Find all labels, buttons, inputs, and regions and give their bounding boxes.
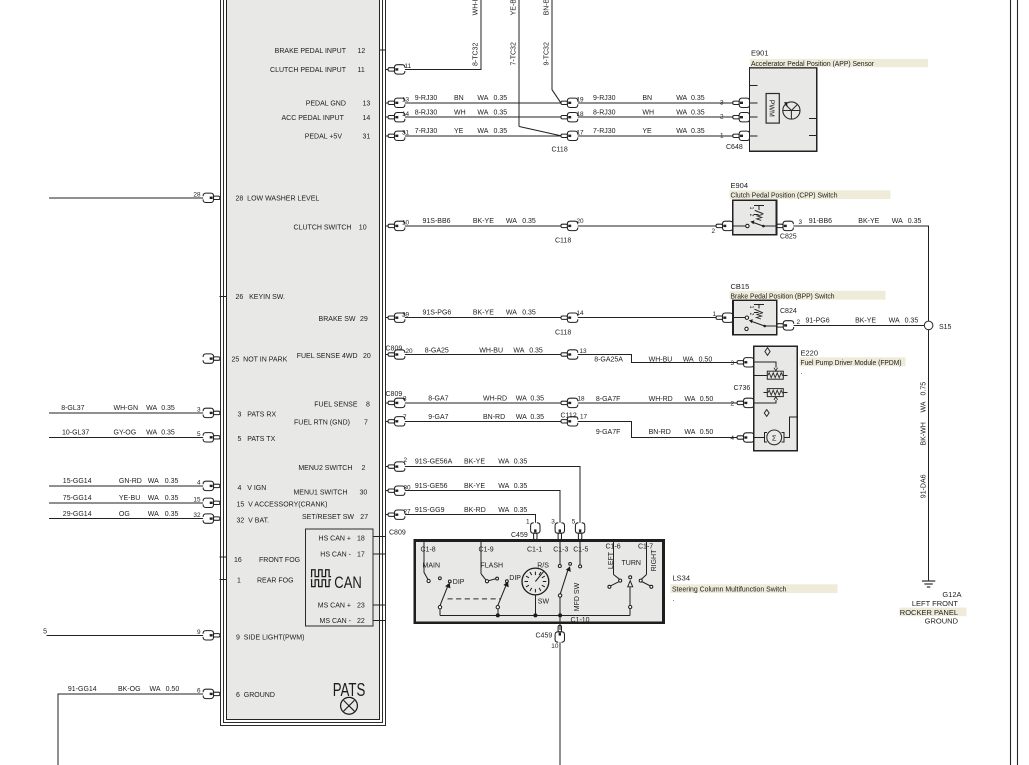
E220 pin4 internal wire <box>754 436 765 438</box>
C1-9 stub and FLASH contact <box>480 542 482 575</box>
svg-text:0.35: 0.35 <box>494 95 508 102</box>
svg-text:14: 14 <box>363 115 371 122</box>
connector pin 27 SET/RESET <box>388 510 405 519</box>
CAN stub 22 <box>373 620 386 622</box>
CB15 pedal link squiggle <box>756 313 762 319</box>
connector pin 3 PATS RX <box>203 408 220 417</box>
highlight E220 desc <box>800 357 906 366</box>
CB15 output wire <box>765 325 777 327</box>
svg-text:91-DA6: 91-DA6 <box>920 474 927 498</box>
CB15 open contact circle <box>745 327 748 330</box>
svg-text:30: 30 <box>360 490 368 497</box>
E904 lever with arrow <box>753 222 764 226</box>
svg-text:CLUTCH SWITCH: CLUTCH SWITCH <box>294 224 352 231</box>
svg-text:91S-GE56: 91S-GE56 <box>415 483 448 490</box>
E220 resistor1 top arrow <box>774 368 778 371</box>
ground G12A symbol <box>922 581 935 587</box>
svg-text:C809: C809 <box>389 530 406 537</box>
svg-text:.: . <box>801 367 803 376</box>
svg-text:75-GG14: 75-GG14 <box>63 495 92 502</box>
svg-text:C1-6: C1-6 <box>606 544 621 551</box>
CB15 lever pivot dot <box>763 325 766 328</box>
connector pin 29 BRAKE SW <box>388 313 405 322</box>
svg-text:8-GA7: 8-GA7 <box>428 396 448 403</box>
FLASH lever <box>498 586 506 606</box>
E904 output wire <box>763 225 776 227</box>
wire 7-RJ30 PEDAL +5V row <box>386 135 737 137</box>
svg-text:WA: WA <box>498 483 509 490</box>
ECU module (instrument/central module) outer border <box>221 0 386 726</box>
svg-text:WH: WH <box>454 109 466 116</box>
svg-text:27: 27 <box>360 514 368 521</box>
highlight ROCKER PANEL <box>900 608 967 617</box>
svg-text:MENU2 SWITCH: MENU2 SWITCH <box>298 465 352 472</box>
BPP switch CB15 body <box>733 300 777 335</box>
svg-text:9: 9 <box>197 629 201 636</box>
pin 12 stub BRAKE PEDAL INPUT <box>380 49 386 51</box>
svg-text:0.50: 0.50 <box>700 429 714 436</box>
svg-text:0.50: 0.50 <box>166 686 180 693</box>
svg-text:WA: WA <box>148 511 159 518</box>
svg-text:PEDAL GND: PEDAL GND <box>306 100 346 107</box>
svg-text:0.35: 0.35 <box>165 495 179 502</box>
ECU module inner body <box>227 0 380 720</box>
E904 contact circle <box>746 224 749 227</box>
svg-text:91-PG6: 91-PG6 <box>806 317 830 324</box>
svg-text:BK-YE: BK-YE <box>464 459 485 466</box>
wire 10-GL37 PATS TX <box>49 436 220 438</box>
E904 lever pivot dot <box>762 225 765 228</box>
CAN stub 18 <box>373 536 386 538</box>
svg-text:WH: WH <box>642 109 654 116</box>
svg-text:BK-YE: BK-YE <box>473 218 494 225</box>
svg-text:16: 16 <box>234 557 242 564</box>
connector E220 pin 2 <box>737 398 754 407</box>
connector pin 15 V ACCESSORY <box>203 498 220 507</box>
svg-text:WA: WA <box>506 218 517 225</box>
svg-text:20: 20 <box>577 218 585 225</box>
svg-text:8-RJ30: 8-RJ30 <box>415 109 438 116</box>
connector pin 2 MENU2 <box>388 462 405 471</box>
svg-text:91S-GE56A: 91S-GE56A <box>415 459 453 466</box>
svg-text:DIP: DIP <box>453 579 465 586</box>
svg-text:WA: WA <box>477 128 488 135</box>
svg-text:WA: WA <box>516 414 527 421</box>
svg-text:9-RJ30: 9-RJ30 <box>415 95 438 102</box>
connector pin 9 SIDE LIGHT <box>203 631 220 640</box>
svg-text:26 KEYIN SW.: 26 KEYIN SW. <box>236 294 285 301</box>
svg-text:BN: BN <box>642 95 652 102</box>
svg-text:7-TC32: 7-TC32 <box>511 42 518 65</box>
svg-text:FUEL SENSE: FUEL SENSE <box>314 402 358 409</box>
E904 input wire to contact <box>733 225 746 227</box>
wire 7-TC32 riser to C118-17 <box>518 0 520 127</box>
CB15 lever <box>752 322 764 326</box>
wire 9-TC32 riser to C118-19 <box>551 0 553 90</box>
svg-text:WA: WA <box>146 429 157 436</box>
wire 8-GA7 FUEL SENSE row <box>386 402 741 404</box>
svg-text:0.35: 0.35 <box>691 128 705 135</box>
svg-text:BN-RD: BN-RD <box>483 414 505 421</box>
svg-text:2: 2 <box>730 401 734 408</box>
svg-text:WH-RD: WH-RD <box>483 396 507 403</box>
connector C459-5 <box>575 523 584 540</box>
svg-text:8: 8 <box>366 402 370 409</box>
svg-text:8-GA25A: 8-GA25A <box>594 356 623 363</box>
C1-8 stub and MAIN contact <box>423 542 425 573</box>
svg-text:YE-BU: YE-BU <box>511 0 518 15</box>
E904 pedal bracket <box>754 206 764 215</box>
wire 91S-PG6 BRAKE SW row <box>386 317 720 319</box>
svg-text:28: 28 <box>193 191 201 198</box>
wire 91-GG14 GROUND with corner down <box>58 694 220 765</box>
R/S pointer <box>535 571 544 581</box>
svg-text:FRONT FOG: FRONT FOG <box>259 557 300 564</box>
C1-5 stub and contact <box>579 542 581 565</box>
svg-text:1: 1 <box>720 132 724 139</box>
svg-text:91S-GG9: 91S-GG9 <box>415 507 445 514</box>
svg-text:31: 31 <box>402 130 410 137</box>
connector pin 30 MENU1 <box>388 486 405 495</box>
C1-6 stub and LEFT contact <box>613 542 615 575</box>
svg-text:0.35: 0.35 <box>908 218 922 225</box>
svg-text:0.35: 0.35 <box>691 95 705 102</box>
svg-text:91-GG14: 91-GG14 <box>68 686 97 693</box>
connector C648-2 <box>733 113 750 122</box>
svg-text:TURN: TURN <box>622 560 641 567</box>
svg-text:27: 27 <box>404 509 412 516</box>
svg-text:C1-8: C1-8 <box>421 547 436 554</box>
svg-text:32: 32 <box>193 512 201 519</box>
svg-text:E904: E904 <box>731 181 749 190</box>
svg-text:WA: WA <box>920 401 927 412</box>
svg-text:.: . <box>673 594 675 603</box>
svg-text:RIGHT: RIGHT <box>651 549 658 572</box>
FLASH DIP contact <box>506 580 509 583</box>
svg-text:30: 30 <box>404 485 412 492</box>
svg-text:9-RJ30: 9-RJ30 <box>593 95 616 102</box>
svg-text:32 V BAT.: 32 V BAT. <box>237 518 270 525</box>
svg-text:Accelerator Pedal Position (AP: Accelerator Pedal Position (APP) Sensor <box>751 61 875 68</box>
connector C118-18 <box>561 113 578 122</box>
wire 91S-BB6 CLUTCH SWITCH row <box>386 225 720 227</box>
connector pin 11 (CLUTCH PEDAL INPUT) <box>388 65 405 74</box>
highlight E901 desc <box>750 59 928 67</box>
svg-text:Clutch Pedal Position (CPP) Sw: Clutch Pedal Position (CPP) Switch <box>731 193 838 200</box>
svg-text:BK-YE: BK-YE <box>858 218 879 225</box>
svg-text:8: 8 <box>403 395 407 402</box>
wire 28 LOW WASHER LEVEL <box>49 197 220 199</box>
svg-text:WA: WA <box>684 396 695 403</box>
E220 top diamond <box>765 348 770 356</box>
svg-text:10-GL37: 10-GL37 <box>62 429 89 436</box>
C1-3 stub and contact <box>559 542 561 565</box>
MAIN middle contact <box>439 577 442 580</box>
CB15 pedal bracket <box>754 305 764 313</box>
svg-text:9-GA7: 9-GA7 <box>428 414 448 421</box>
svg-text:MFD SW: MFD SW <box>574 582 581 611</box>
svg-text:C118: C118 <box>555 330 571 337</box>
svg-text:WA: WA <box>477 109 488 116</box>
svg-text:7-RJ30: 7-RJ30 <box>593 128 616 135</box>
svg-text:9-GA7F: 9-GA7F <box>596 429 621 436</box>
svg-text:CLUTCH PEDAL INPUT: CLUTCH PEDAL INPUT <box>270 67 347 74</box>
svg-text:BK-YE: BK-YE <box>464 483 485 490</box>
svg-text:29-GG14: 29-GG14 <box>63 511 92 518</box>
svg-text:WA: WA <box>148 478 159 485</box>
svg-text:4: 4 <box>730 435 734 442</box>
svg-text:MAIN: MAIN <box>423 562 441 569</box>
svg-text:YE-BU: YE-BU <box>119 495 140 502</box>
svg-text:22: 22 <box>357 618 365 625</box>
svg-text:Σ: Σ <box>772 433 777 442</box>
svg-text:3: 3 <box>551 518 555 525</box>
svg-text:G12A: G12A <box>942 590 961 599</box>
svg-text:8-RJ30: 8-RJ30 <box>593 109 616 116</box>
E901 position sensor circle <box>783 102 800 119</box>
svg-text:C118: C118 <box>552 146 568 153</box>
R/S to bus junction <box>534 595 536 616</box>
svg-text:SW: SW <box>538 599 550 606</box>
svg-text:LS34: LS34 <box>673 574 691 583</box>
svg-text:0.35: 0.35 <box>514 507 528 514</box>
svg-text:15: 15 <box>193 496 201 503</box>
svg-text:HS CAN -: HS CAN - <box>320 552 351 559</box>
E901 internal stub y85.6 <box>750 85 758 87</box>
wire 9-GA7 FUEL RTN row <box>386 420 563 422</box>
svg-text:WH-BU: WH-BU <box>472 0 479 15</box>
pin 26 KEYIN stub <box>220 296 228 298</box>
svg-text:8-GL37: 8-GL37 <box>61 405 84 412</box>
svg-text:3 PATS RX: 3 PATS RX <box>238 411 277 418</box>
svg-text:GN-RD: GN-RD <box>119 478 142 485</box>
svg-text:13: 13 <box>402 97 410 104</box>
svg-text:23: 23 <box>357 602 365 609</box>
CAN square wave symbol <box>311 570 331 577</box>
svg-text:FUEL RTN (GND): FUEL RTN (GND) <box>294 420 350 427</box>
E220 resistor2 side leads <box>763 392 787 394</box>
connector C459-1 <box>531 523 540 540</box>
connector E904 pin 2 input <box>716 221 733 230</box>
svg-text:8-GA25: 8-GA25 <box>425 348 449 355</box>
svg-text:C1-9: C1-9 <box>479 547 494 554</box>
C1-7 stub and RIGHT contact <box>646 542 648 575</box>
R/S rotary ticks <box>525 572 547 593</box>
svg-text:WA: WA <box>676 95 687 102</box>
svg-text:14: 14 <box>402 111 410 118</box>
TURN lever arrow <box>628 581 633 587</box>
svg-text:C1-3: C1-3 <box>553 547 568 554</box>
svg-text:FLASH: FLASH <box>481 562 504 569</box>
svg-text:0.35: 0.35 <box>494 128 508 135</box>
pin 1 REAR FOG stub <box>220 579 228 581</box>
svg-text:WH-BU: WH-BU <box>649 356 673 363</box>
svg-text:8-GA7F: 8-GA7F <box>596 396 621 403</box>
exit wire through C1-10 <box>559 615 561 630</box>
connector pin 4 V IGN <box>203 481 220 490</box>
connector E220 pin 3 <box>737 358 754 367</box>
connector 18 (8-GA7F) <box>561 398 578 407</box>
svg-text:10: 10 <box>402 220 410 227</box>
connector 13 (8-GA25A) <box>561 350 578 359</box>
svg-text:7: 7 <box>403 414 407 421</box>
svg-text:18: 18 <box>357 535 365 542</box>
mechanical link dashed <box>448 598 501 600</box>
svg-text:5: 5 <box>572 518 576 525</box>
MAIN lever <box>440 587 448 606</box>
svg-text:11: 11 <box>358 67 365 74</box>
svg-text:1: 1 <box>526 518 530 525</box>
svg-text:28 LOW WASHER LEVEL: 28 LOW WASHER LEVEL <box>236 195 320 202</box>
E220 pin2 internal wire <box>754 400 776 403</box>
svg-text:WH-BU: WH-BU <box>479 348 503 355</box>
svg-text:BK-YE: BK-YE <box>473 310 494 317</box>
svg-text:CB15: CB15 <box>731 282 750 291</box>
svg-text:GY-OG: GY-OG <box>114 429 137 436</box>
svg-text:3: 3 <box>197 406 201 413</box>
svg-text:WA: WA <box>498 459 509 466</box>
svg-text:0.35: 0.35 <box>514 483 528 490</box>
MAIN lever to bus <box>439 609 441 616</box>
svg-text:14: 14 <box>577 310 585 317</box>
svg-text:WA: WA <box>676 109 687 116</box>
svg-text:C118: C118 <box>555 238 571 245</box>
wire SIDE LIGHT(PWM) <box>47 634 220 636</box>
svg-text:WA: WA <box>684 429 695 436</box>
svg-text:CAN: CAN <box>334 574 362 592</box>
svg-text:YE: YE <box>642 128 652 135</box>
svg-text:GROUND: GROUND <box>925 616 959 625</box>
svg-text:BK-WH: BK-WH <box>920 422 927 445</box>
wire 91S-GE56 MENU1 SWITCH to C459-3 <box>386 491 560 565</box>
svg-text:0.35: 0.35 <box>165 511 179 518</box>
connector pin 13 (PEDAL GND) <box>388 98 405 107</box>
connector pin 7 FUEL RTN <box>388 417 405 426</box>
wire 9-RJ30 PEDAL GND row <box>386 102 737 104</box>
svg-text:E901: E901 <box>751 49 769 58</box>
wire pin11 CLUTCH PEDAL INPUT to 8-TC32 riser <box>386 0 482 69</box>
connector pin 10 CLUTCH SWITCH <box>388 221 405 230</box>
svg-text:0.35: 0.35 <box>530 414 544 421</box>
svg-text:1: 1 <box>748 306 754 309</box>
svg-text:WA: WA <box>477 95 488 102</box>
connector C648-3 <box>733 98 750 107</box>
svg-text:WA: WA <box>150 686 161 693</box>
FLASH middle contact <box>496 577 499 580</box>
svg-text:2: 2 <box>711 228 715 235</box>
connector pin 32 V BAT <box>203 514 220 523</box>
E220 motor right bracket <box>781 433 784 443</box>
svg-text:91-BB6: 91-BB6 <box>809 218 832 225</box>
svg-text:0.35: 0.35 <box>529 348 543 355</box>
svg-text:9-TC32: 9-TC32 <box>544 42 551 65</box>
CAN stub 23 <box>373 604 386 606</box>
TURN lever line from bus <box>629 587 631 616</box>
LS34 common bus <box>440 614 630 616</box>
svg-text:0.35: 0.35 <box>530 396 544 403</box>
svg-text:31: 31 <box>363 133 371 140</box>
svg-text:18: 18 <box>577 111 585 118</box>
CPP switch E904 body <box>733 200 777 235</box>
svg-text:C736: C736 <box>734 385 751 392</box>
connector C118-20 <box>561 221 578 230</box>
svg-text:PWM: PWM <box>768 100 775 117</box>
TURN center contact <box>629 576 632 579</box>
E901 internal stub pin1 <box>750 135 758 137</box>
pin 16 FRONT FOG stub <box>220 556 228 558</box>
connector C118-19 <box>561 98 578 107</box>
E901 internal stub pin2 <box>750 116 758 118</box>
svg-text:3: 3 <box>799 219 803 226</box>
svg-text:91S-BB6: 91S-BB6 <box>423 218 451 225</box>
svg-text:5 PATS TX: 5 PATS TX <box>238 436 276 443</box>
svg-text:1: 1 <box>237 577 241 584</box>
svg-text:0.35: 0.35 <box>514 459 528 466</box>
svg-text:WH-RD: WH-RD <box>649 396 673 403</box>
svg-text:MS CAN -: MS CAN - <box>320 618 352 625</box>
svg-text:SET/RESET SW: SET/RESET SW <box>302 514 354 521</box>
splice S15 <box>924 321 933 330</box>
svg-text:7: 7 <box>364 420 368 427</box>
svg-text:20: 20 <box>363 353 371 360</box>
svg-text:C825: C825 <box>780 233 797 240</box>
svg-text:7-RJ30: 7-RJ30 <box>415 128 438 135</box>
wire 91S-GG9 SET/RESET SW to C459-1 <box>386 515 536 569</box>
svg-text:BK-RD: BK-RD <box>464 507 486 514</box>
connector E220 pin 4 <box>737 433 754 442</box>
svg-text:R/S: R/S <box>537 562 549 569</box>
svg-text:4: 4 <box>197 479 201 486</box>
CB15 lever arrowhead <box>749 319 753 323</box>
CB15 contact circle <box>745 316 748 319</box>
E220 resistor1 box with zigzag <box>767 371 783 379</box>
svg-text:C809: C809 <box>386 391 403 398</box>
wire 8-GA25A jog to E220 pin3 <box>576 355 738 363</box>
svg-text:BRAKE SW: BRAKE SW <box>319 316 356 323</box>
svg-text:FUEL SENSE 4WD: FUEL SENSE 4WD <box>297 353 358 360</box>
E901 internal stub pin3 <box>750 102 758 104</box>
svg-text:0.75: 0.75 <box>920 382 927 396</box>
svg-text:WA: WA <box>676 128 687 135</box>
wire 8-GL37 PATS RX <box>49 412 220 414</box>
svg-text:1: 1 <box>712 311 716 318</box>
svg-text:10: 10 <box>359 224 367 231</box>
svg-text:3: 3 <box>730 360 734 367</box>
svg-text:BN: BN <box>454 95 464 102</box>
E220 resistor2 bottom arrow <box>774 397 778 400</box>
svg-text:0.35: 0.35 <box>522 218 536 225</box>
MFD lever <box>560 570 568 594</box>
svg-text:2: 2 <box>748 214 754 217</box>
svg-text:0.35: 0.35 <box>905 317 919 324</box>
svg-text:0.35: 0.35 <box>494 109 508 116</box>
svg-text:25 NOT IN PARK: 25 NOT IN PARK <box>232 357 288 364</box>
E220 pump motor sigma circle <box>767 430 782 445</box>
svg-text:YE: YE <box>454 128 464 135</box>
E901 internal stub right y118 <box>809 117 817 119</box>
APP sensor E901 body <box>750 68 817 151</box>
svg-text:20: 20 <box>406 348 414 355</box>
connector C118-14 <box>561 313 578 322</box>
svg-text:8-TC32: 8-TC32 <box>472 43 479 66</box>
svg-text:17: 17 <box>580 413 588 420</box>
connector C824 <box>777 321 794 330</box>
svg-text:4 V IGN: 4 V IGN <box>238 485 267 492</box>
connector pin 5 PATS TX <box>203 433 220 442</box>
svg-text:2: 2 <box>404 457 408 464</box>
svg-text:12: 12 <box>358 48 366 55</box>
page border line 1 <box>1010 0 1012 765</box>
